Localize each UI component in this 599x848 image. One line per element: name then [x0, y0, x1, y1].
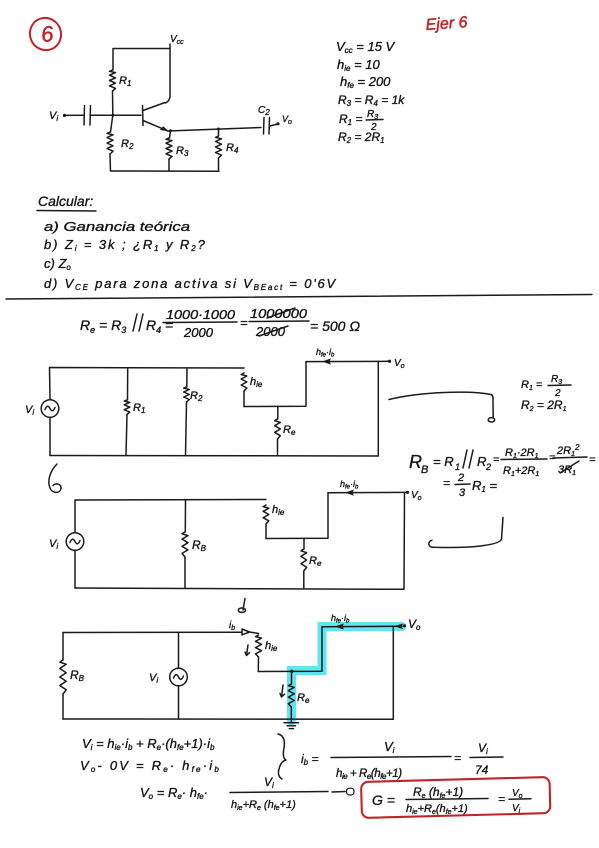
equation Re = R3||R4 — [80, 314, 173, 335]
svg-text:R1 =: R1 = — [521, 379, 543, 392]
svg-text:=: = — [589, 454, 596, 466]
circuit3 current label ib with arrow — [229, 620, 250, 635]
capacitor C1 (input coupling) — [84, 106, 91, 126]
exercise number circled 6 (red) — [26, 14, 65, 54]
circuit1 dependent source hfe ib arrow — [306, 347, 389, 365]
annotation small down arrow near Re — [280, 685, 285, 697]
svg-text:Calcular:: Calcular: — [38, 193, 93, 209]
svg-text:=: = — [493, 454, 500, 466]
svg-text:B: B — [421, 464, 428, 476]
wire emitter node to R3 — [170, 131, 171, 138]
circuit2 wire mid shelf — [266, 493, 328, 539]
equation Vo = Re hfe Vi/(hie+Re(hfe+1)) — [140, 775, 328, 812]
equation Vi = hie ib + Re (hfe+1) ib — [82, 736, 215, 752]
curly brace — [278, 734, 286, 779]
svg-text:Re = R3: Re = R3 — [80, 317, 126, 335]
equation RB = R1||R2 — [409, 450, 500, 476]
svg-text:=: = — [443, 476, 450, 490]
svg-text:Vi = hie·ib + Re·(hfe+1)·ib: Vi = hie·ib + Re·(hfe+1)·ib — [82, 736, 215, 752]
annotation curve from circuit1 to RB formula — [389, 392, 495, 422]
circuit3 node Vo — [394, 617, 421, 632]
fraction 1000000/2000 cancelled — [240, 306, 309, 339]
circuit1 wire top rail — [50, 368, 245, 400]
note R2 = 2R1 — [521, 398, 567, 413]
svg-text:2000: 2000 — [183, 325, 214, 340]
circuit1 wire left bottom — [49, 418, 51, 456]
circuit1 wire mid shelf — [244, 362, 306, 407]
svg-text:=: = — [454, 751, 461, 765]
annotation small down arrow near hie — [245, 645, 250, 656]
svg-text:b) Zi = 3k ; ¿R1 y R2?: b) Zi = 3k ; ¿R1 y R2? — [44, 237, 207, 253]
svg-text:74: 74 — [475, 763, 489, 777]
cyan highlighter output path — [292, 627, 403, 722]
red title Ejer 6 — [425, 14, 468, 34]
wire R3 to bottom rail — [168, 159, 170, 171]
circuit2 source Vi — [49, 533, 84, 551]
node Vo output of top schematic — [270, 114, 292, 126]
circuit2 resistor RB — [182, 500, 207, 588]
annotation loop mark b — [49, 464, 61, 492]
wire R2 to bottom rail — [109, 154, 112, 171]
item c Zo — [44, 256, 71, 272]
svg-text:R2 = 2R1: R2 = 2R1 — [521, 398, 567, 413]
node Vcc label — [170, 34, 184, 46]
circuit3 source Vi — [149, 632, 187, 719]
red result box — [361, 777, 550, 818]
fraction R1 2R1 over R1+2R1 — [501, 447, 547, 478]
wire C1 to base junction — [91, 114, 141, 117]
note R1 = R3/2 — [521, 374, 571, 399]
wire R4 branch from emitter rail — [218, 129, 220, 136]
svg-text:= 500 Ω: = 500 Ω — [310, 318, 360, 334]
heading Calcular — [37, 193, 96, 211]
circuit1 resistor hie — [241, 373, 263, 407]
given value hfe = 200 — [340, 74, 391, 90]
annotation d mark — [238, 599, 245, 613]
circuit1 source Vi — [25, 400, 59, 418]
wire R4 to bottom rail — [218, 158, 220, 171]
wire Vcc vertical — [165, 44, 170, 103]
circuit1 resistor Re — [275, 406, 296, 455]
page divider line — [6, 295, 592, 300]
capacitor C2 label — [258, 105, 270, 117]
circuit2 wire right vertical — [403, 493, 406, 589]
circuit2 wire top rail — [75, 500, 266, 533]
circuit1 wire right vertical — [377, 362, 379, 456]
equation = Vi / 74 — [454, 741, 503, 777]
svg-text:R1+2R1: R1+2R1 — [503, 465, 539, 478]
svg-text:ib =: ib = — [301, 752, 318, 767]
circuit1 node Vo — [388, 358, 405, 370]
wire Vi to C1 — [65, 114, 84, 116]
wire emitter rail to C2 — [168, 128, 261, 133]
given value hie = 10 — [337, 57, 381, 73]
circuit3 wire top rail — [63, 632, 259, 634]
circuit2 wire left bottom — [74, 551, 76, 588]
circuit3 resistor RB — [60, 633, 85, 720]
item a Ganancia teorica — [44, 219, 190, 234]
svg-text:=: = — [498, 792, 505, 806]
transistor Q1 — [143, 103, 169, 132]
svg-text:Ejer 6: Ejer 6 — [425, 14, 468, 34]
svg-text:= R: = R — [433, 454, 454, 469]
result 500 ohm — [310, 318, 360, 334]
boxed gain equation G — [372, 785, 531, 816]
circuit3 resistor hie — [256, 635, 278, 672]
ground symbol — [284, 720, 299, 729]
svg-text:3: 3 — [459, 487, 466, 499]
circuit2 wire bottom rail — [75, 588, 404, 589]
arrow to result box — [332, 788, 354, 795]
svg-text:G =: G = — [372, 792, 395, 808]
resistor R3 — [166, 138, 189, 159]
circuit2 resistor hie — [263, 504, 285, 539]
circuit2 resistor Re — [301, 538, 322, 588]
node Vi input — [49, 110, 66, 123]
equation Vo - 0V = Re hfe ib — [80, 758, 221, 774]
svg-text:1000·1000: 1000·1000 — [166, 307, 236, 322]
fraction 1000*1000/2000 — [163, 307, 237, 340]
given value R2 = 2R1 — [338, 130, 385, 145]
wire base node to R2 — [111, 115, 113, 132]
circuit1 resistor R2 — [184, 368, 203, 455]
wire top rail to R1 branch — [113, 49, 170, 71]
wire R1 to base node — [112, 91, 114, 115]
fraction 2R1^2 over 3R1 cancelled — [549, 443, 596, 477]
svg-text:2: 2 — [485, 462, 491, 472]
given value R3 = R4 = 1k — [338, 93, 405, 108]
item d VCE para zona activa — [44, 276, 337, 292]
svg-text:hie = 10: hie = 10 — [337, 57, 381, 73]
resistor R2 — [107, 132, 134, 154]
svg-text:R2 = 2R1: R2 = 2R1 — [338, 130, 385, 145]
svg-text:R: R — [477, 454, 486, 469]
svg-text:a) Ganancia teórica: a) Ganancia teórica — [44, 219, 190, 234]
resistor R1 — [110, 70, 132, 91]
item b Zi=3k R1 y R2 — [44, 237, 207, 253]
wire bottom rail of top schematic — [111, 170, 220, 172]
svg-text:Re (hfe+1): Re (hfe+1) — [413, 785, 463, 800]
circuit2 node Vo — [406, 490, 422, 502]
svg-text:R1·2R1: R1·2R1 — [505, 447, 539, 460]
resistor R4 — [216, 136, 239, 158]
capacitor C2 — [264, 118, 270, 135]
svg-text:1: 1 — [455, 462, 460, 472]
circuit1 wire bottom rail — [50, 455, 378, 458]
circuit3 wire right vertical — [392, 627, 394, 720]
circuit1 resistor R1 — [124, 368, 145, 455]
circuit3 resistor Re — [288, 671, 310, 719]
circuit2 dependent source hfe ib arrow — [328, 479, 407, 496]
circuit3 wire bottom rail — [63, 718, 393, 720]
svg-text:2: 2 — [457, 472, 464, 484]
circuit3 wire mid shelf — [258, 627, 322, 673]
given value R1 = R3/2 — [339, 109, 383, 133]
given value Vcc = 15V — [336, 39, 396, 55]
equation ib = Vi / (hie+Re(hfe+1)) — [301, 739, 451, 781]
annotation curved arrow to circuit2 — [429, 518, 503, 548]
circuit3 dependent source hfe ib arrow — [322, 613, 402, 630]
svg-text:=: = — [240, 315, 248, 330]
equation = 2/3 R1 — [443, 472, 497, 499]
